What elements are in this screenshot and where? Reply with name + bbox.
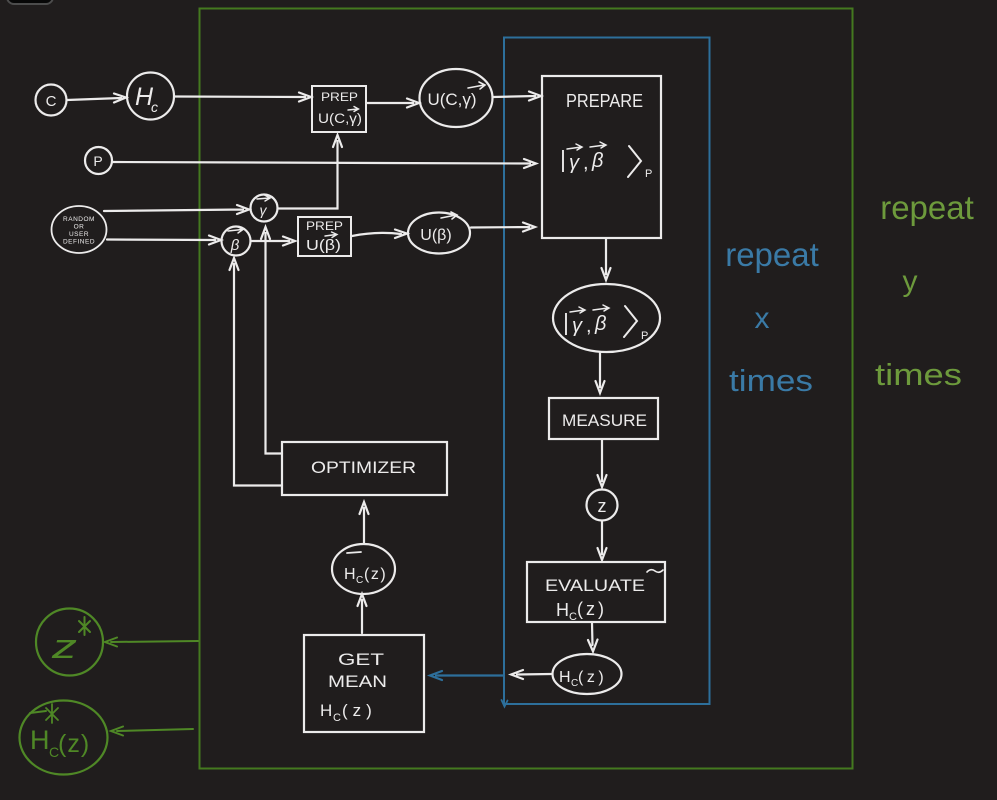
blue loop arrowhead at bottom-left corner [502,700,508,707]
wire ket ellipse to MEASURE [596,353,605,393]
svg-text:OR: OR [74,224,85,231]
box OPTIMIZER [282,442,447,495]
ellipse Hc(z) [553,654,622,694]
loop rectangle repeat-x (blue inner) [504,38,710,705]
wire Hc(z) ellipse left (white) [511,670,551,679]
node P [85,147,112,174]
svg-text:C: C [569,611,577,623]
svg-text:|: | [563,309,569,335]
node mean Hc star (green ellipse) [20,701,108,775]
svg-text:repeat: repeat [880,189,974,226]
wire PREP U(beta) to U(beta) ellipse [352,230,407,239]
wire cloud to beta [107,236,221,245]
svg-text:H: H [556,600,569,620]
svg-text:U(C,γ): U(C,γ) [318,111,362,126]
svg-text:EVALUATE: EVALUATE [545,576,645,595]
ellipse ket state [553,284,660,352]
svg-text:γ: γ [572,315,583,337]
svg-text:,: , [583,152,589,174]
svg-text:RANDOM: RANDOM [63,216,95,223]
green wire to z-star [105,638,198,647]
svg-text:MEASURE: MEASURE [562,411,647,430]
svg-text:(z): (z) [364,566,387,583]
box GET MEAN [304,635,424,732]
svg-text:γ: γ [569,152,580,174]
svg-text:P: P [645,168,652,180]
svg-text:(z): (z) [58,730,90,758]
label repeat y times (green) [875,189,974,392]
wire mean ellipse to OPTIMIZER [360,502,369,543]
ellipse mean Hc(z) [332,544,395,594]
box PREPARE [542,76,661,238]
wire U(beta) to PREPARE [471,223,535,232]
svg-text:x: x [755,302,770,335]
svg-text:U(C,γ): U(C,γ) [427,90,476,109]
node gamma [251,195,278,222]
svg-text:DEFINED: DEFINED [63,239,95,246]
box MEASURE [549,398,658,439]
svg-text:(z): (z) [342,701,377,720]
svg-text:c: c [151,99,158,115]
svg-text:MEAN: MEAN [328,672,387,691]
wire PREPARE to ket ellipse [602,239,611,280]
node C [36,85,67,116]
node z [587,490,618,521]
svg-text:z: z [598,496,607,516]
blue wire into GET MEAN [430,671,504,680]
box PREP U(C,gamma) [312,86,366,132]
svg-text:P: P [641,330,648,342]
node z-star (green) [36,609,103,676]
toolbar button fragment top-left [7,0,53,4]
wire MEASURE to z [598,440,607,487]
svg-text:repeat: repeat [725,236,819,273]
svg-text:|: | [560,146,566,172]
green wire to mean-star ellipse [111,727,193,736]
svg-text:H: H [344,566,356,583]
label repeat x times (blue) [725,236,819,398]
svg-text:times: times [875,357,962,392]
svg-text:C: C [356,575,363,586]
svg-text:C: C [46,93,57,110]
svg-text:y: y [903,265,918,298]
svg-text:U(β): U(β) [306,238,341,254]
svg-text:P: P [93,153,102,169]
wire gamma to PREP U(C,g) elbow [278,135,342,209]
wire beta to PREP U(beta) [251,237,295,246]
svg-text:H: H [30,725,50,755]
wire OPTIMIZER to gamma elbow [261,227,282,454]
ellipse U(beta) [408,213,470,254]
node Hc [127,73,174,120]
loop rectangle repeat-y (green outer) [200,9,853,769]
node beta [222,227,251,256]
wire P to PREPARE [113,159,537,168]
svg-text:times: times [729,363,813,398]
svg-text:H: H [320,701,332,720]
wire OPTIMIZER to beta elbow [230,258,283,486]
wire z to EVALUATE [598,521,607,560]
cloud RANDOM OR USER DEFINED [52,206,107,253]
svg-text:OPTIMIZER: OPTIMIZER [311,458,416,477]
svg-text:(z): (z) [578,669,607,686]
box PREP U(beta) [298,217,351,256]
wire U(C,g) to PREPARE [493,92,541,101]
box EVALUATE Hc(z) [527,562,665,622]
svg-text:H: H [559,669,571,686]
svg-text:PREPARE: PREPARE [566,91,643,111]
svg-text:,: , [586,315,592,337]
wire Hc to PREP U(C,g) [175,93,311,102]
svg-text:USER: USER [69,231,89,238]
ellipse U(C,gamma) [420,69,493,127]
svg-text:PREP: PREP [321,90,358,104]
svg-text:β: β [230,237,240,254]
svg-text:γ: γ [260,202,268,218]
wire EVALUATE to Hc(z) ellipse [588,623,598,652]
wire C to Hc [67,94,126,103]
wire cloud to gamma [104,205,249,214]
svg-text:PREP: PREP [306,219,343,233]
svg-text:C: C [333,712,341,724]
svg-text:β: β [591,150,603,172]
wire GET MEAN to mean ellipse [358,594,367,633]
svg-text:(z): (z) [577,599,607,619]
svg-text:U(β): U(β) [420,227,451,244]
svg-text:β: β [594,313,606,335]
svg-text:z: z [51,628,77,666]
svg-text:GET: GET [338,650,384,669]
wire PREP to U(C,g) ellipse [367,99,419,108]
